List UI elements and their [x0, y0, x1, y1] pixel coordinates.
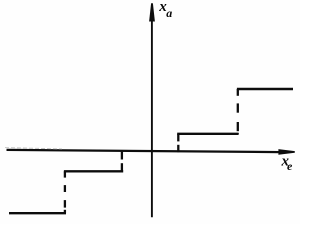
staircase step +1 (first step right of origin) [177, 133, 238, 135]
staircase step -1 (step left of origin) [64, 170, 123, 172]
faint scan fuzz above left part of x-axis [5, 148, 62, 149]
staircase step +2 (top right step) [237, 88, 293, 90]
svg-text:e: e [287, 159, 293, 173]
dashed riser -1 (x axis down to step -1) [121, 151, 123, 160]
svg-text:a: a [166, 6, 172, 20]
x-axis (horizontal axis line) [7, 150, 282, 152]
dashed riser +1 (x axis up to step +1) [177, 134, 179, 142]
dashed riser +2 (step +1 up to step +2) [237, 89, 239, 96]
y-axis (vertical axis line) [151, 14, 153, 217]
y-axis arrowhead [149, 3, 155, 21]
x-axis arrowhead [278, 149, 294, 155]
staircase step -2 (bottom left step) [9, 212, 66, 214]
dashed riser -2 (step -1 down to step -2) [64, 171, 66, 177]
